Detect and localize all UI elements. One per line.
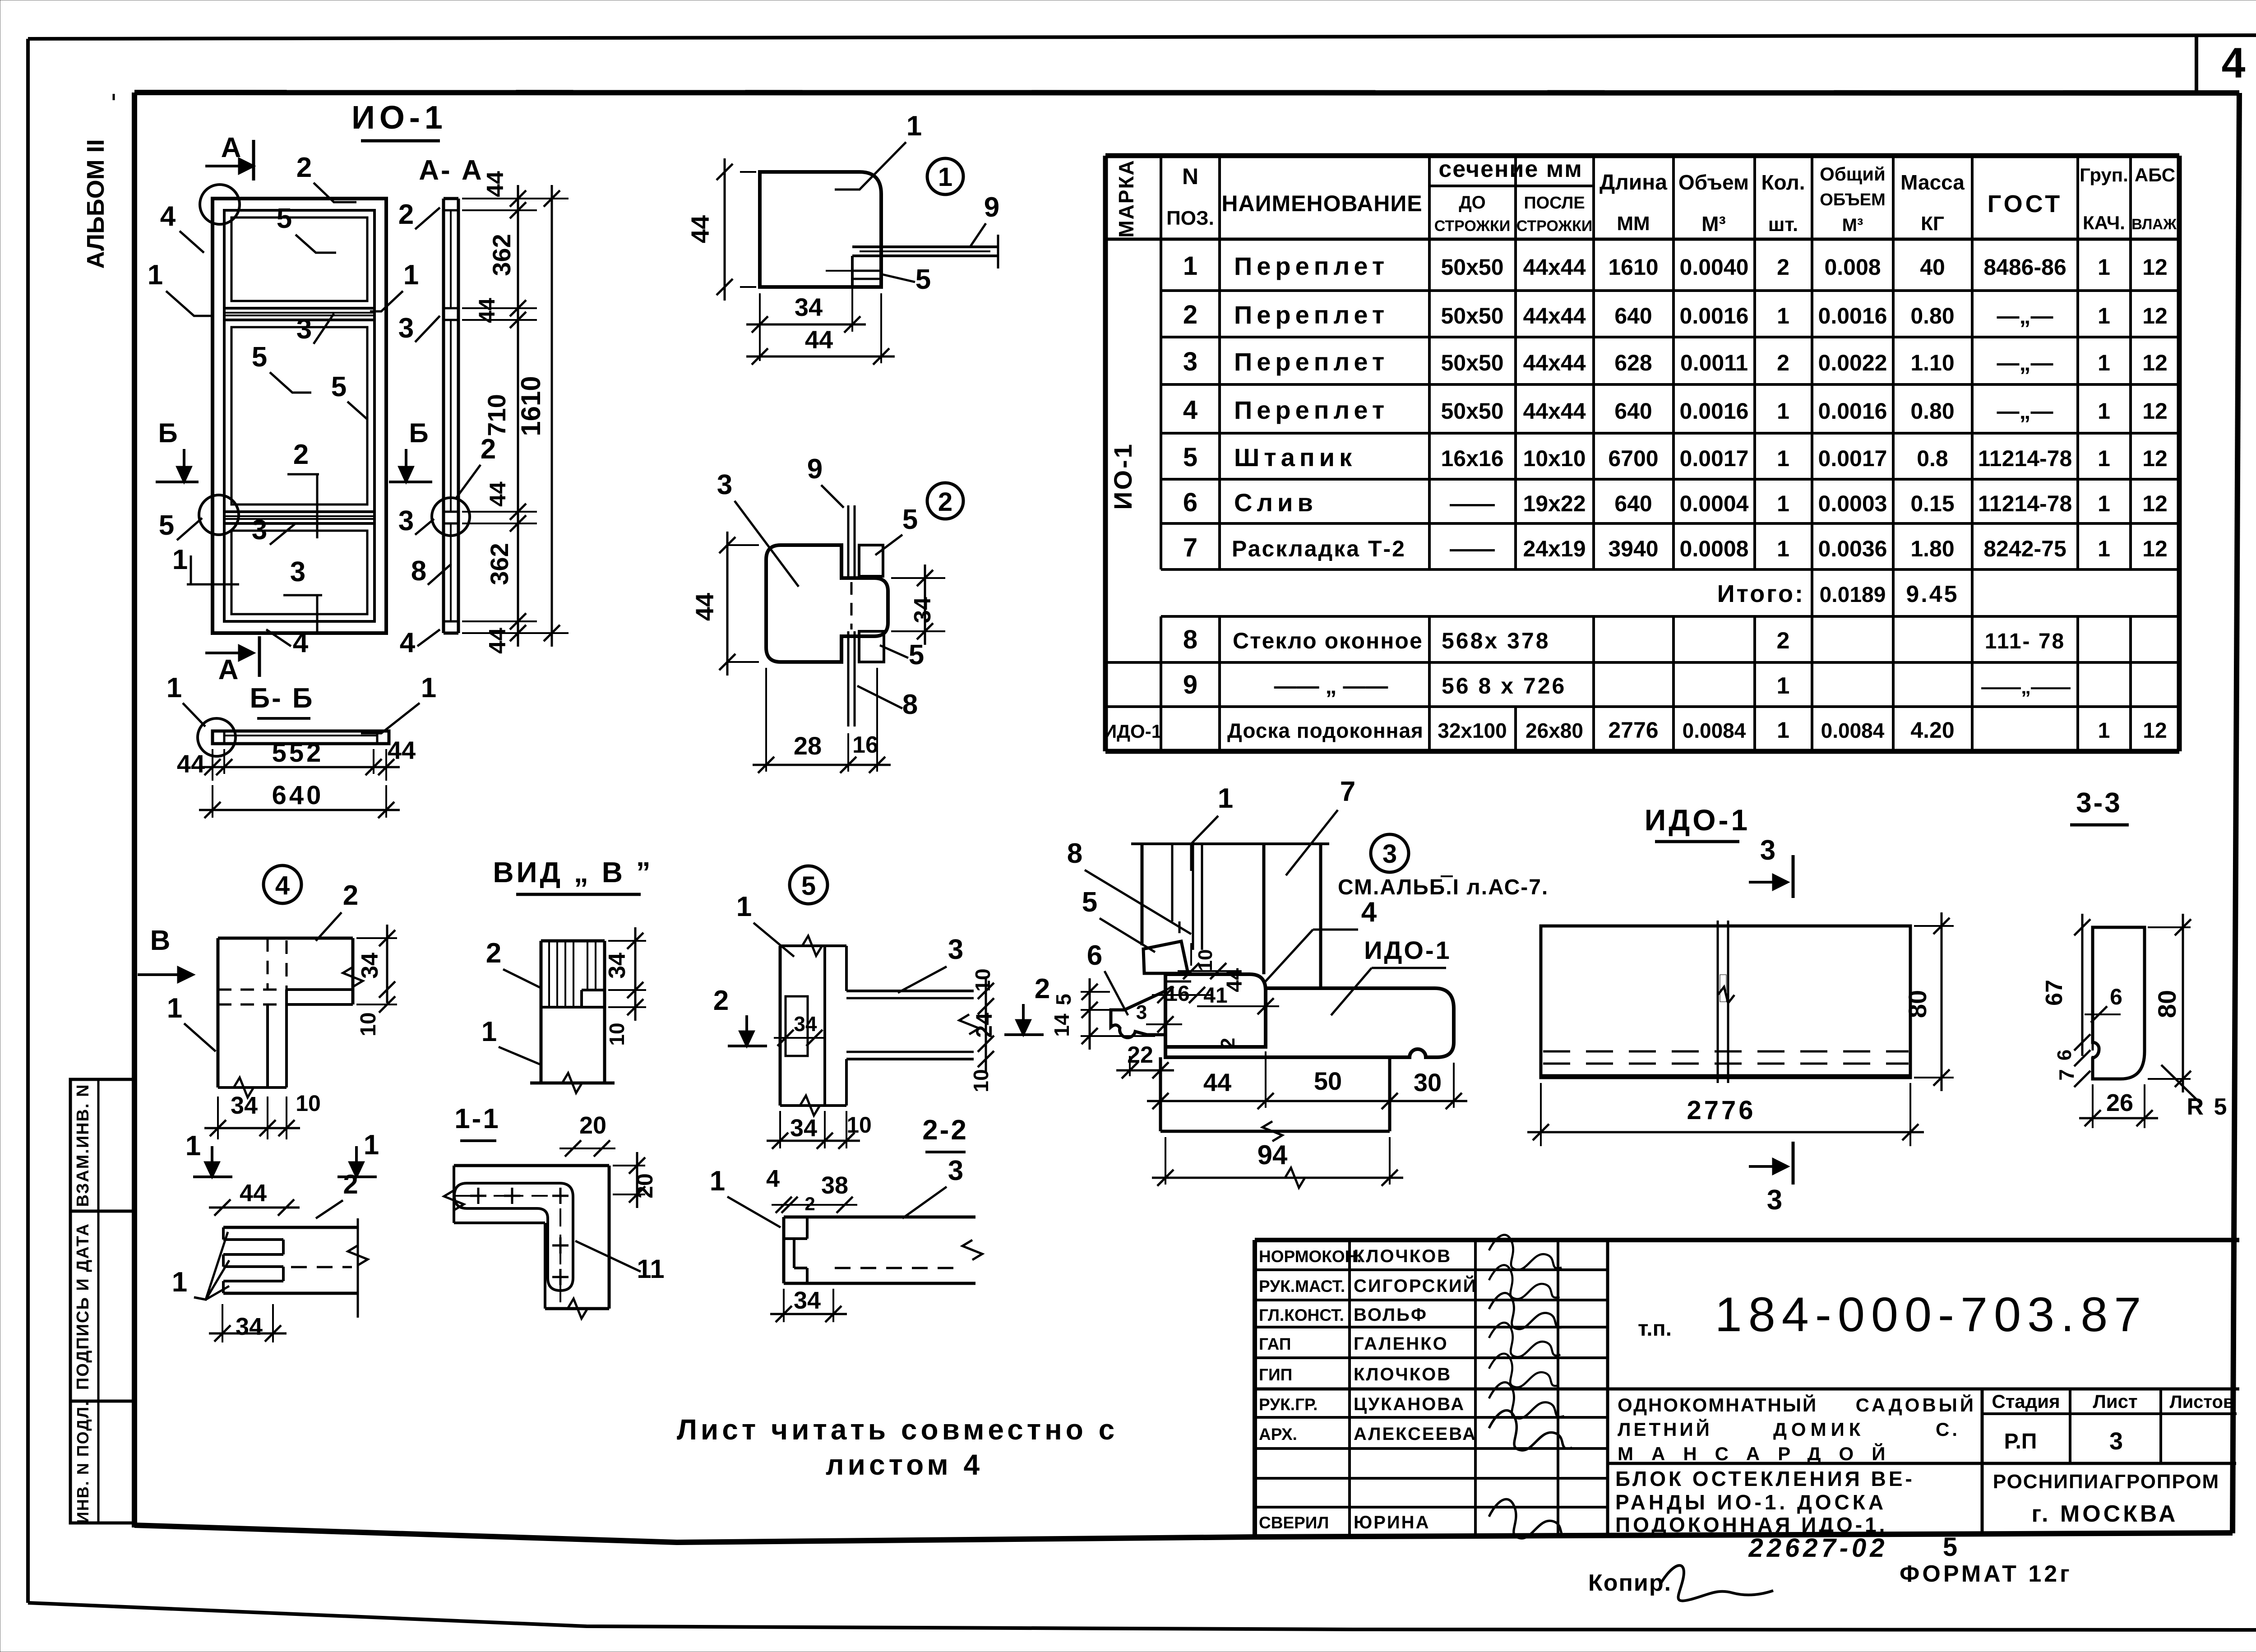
svg-text:6700: 6700 bbox=[1608, 446, 1658, 471]
svg-text:10: 10 bbox=[1194, 949, 1216, 972]
svg-text:КЛОЧКОВ: КЛОЧКОВ bbox=[1354, 1365, 1452, 1384]
svg-text:3: 3 bbox=[252, 514, 267, 546]
svg-text:0.0036: 0.0036 bbox=[1818, 536, 1887, 561]
svg-text:44: 44 bbox=[482, 171, 509, 197]
svg-text:КЛОЧКОВ: КЛОЧКОВ bbox=[1354, 1246, 1452, 1266]
svg-text:1: 1 bbox=[1218, 783, 1233, 814]
svg-text:80: 80 bbox=[1903, 990, 1932, 1018]
svg-text:6: 6 bbox=[2110, 984, 2122, 1009]
svg-text:Штапик: Штапик bbox=[1234, 443, 1356, 472]
svg-text:1: 1 bbox=[2098, 446, 2110, 471]
svg-text:50х50: 50х50 bbox=[1441, 350, 1503, 375]
svg-text:5: 5 bbox=[915, 264, 931, 295]
svg-text:АЛЬБОМ II: АЛЬБОМ II bbox=[82, 139, 109, 268]
svg-text:10: 10 bbox=[356, 1012, 380, 1036]
svg-text:2-2: 2-2 bbox=[922, 1115, 968, 1146]
svg-text:1: 1 bbox=[710, 1166, 725, 1197]
svg-text:44: 44 bbox=[1203, 1068, 1231, 1097]
svg-text:1: 1 bbox=[1777, 536, 1789, 561]
svg-text:24х19: 24х19 bbox=[1523, 536, 1586, 561]
svg-text:4: 4 bbox=[2222, 39, 2246, 87]
svg-text:16: 16 bbox=[852, 732, 878, 758]
svg-text:СИГОРСКИЙ: СИГОРСКИЙ bbox=[1354, 1275, 1477, 1296]
svg-text:0.0084: 0.0084 bbox=[1821, 719, 1885, 742]
svg-text:568х 378: 568х 378 bbox=[1442, 628, 1550, 653]
svg-text:1: 1 bbox=[2098, 719, 2110, 743]
svg-text:22627-02: 22627-02 bbox=[1748, 1533, 1888, 1563]
svg-text:1.10: 1.10 bbox=[1910, 350, 1954, 375]
svg-text:5: 5 bbox=[252, 342, 267, 373]
svg-text:5: 5 bbox=[801, 871, 816, 901]
svg-text:12: 12 bbox=[2142, 536, 2168, 561]
svg-text:ЦУКАНОВА: ЦУКАНОВА bbox=[1354, 1394, 1465, 1414]
svg-text:АРХ.: АРХ. bbox=[1259, 1425, 1297, 1444]
svg-text:ГОСТ: ГОСТ bbox=[1988, 190, 2063, 217]
svg-text:2: 2 bbox=[486, 938, 501, 969]
svg-text:12: 12 bbox=[2142, 398, 2168, 424]
svg-text:Переплет: Переплет bbox=[1234, 396, 1389, 424]
svg-text:34: 34 bbox=[236, 1313, 263, 1340]
svg-text:1: 1 bbox=[2098, 350, 2110, 375]
svg-text:ВОЛЬФ: ВОЛЬФ bbox=[1354, 1305, 1428, 1325]
svg-text:R 5: R 5 bbox=[2187, 1094, 2229, 1120]
svg-text:34: 34 bbox=[231, 1092, 258, 1119]
svg-text:111- 78: 111- 78 bbox=[1985, 629, 2066, 653]
svg-text:3-3: 3-3 bbox=[2076, 787, 2122, 819]
svg-text:0.80: 0.80 bbox=[1910, 303, 1954, 329]
svg-text:9.45: 9.45 bbox=[1906, 581, 1959, 607]
svg-text:44: 44 bbox=[388, 736, 416, 764]
svg-text:0.0022: 0.0022 bbox=[1818, 350, 1887, 375]
svg-text:362: 362 bbox=[487, 234, 516, 276]
svg-text:16: 16 bbox=[1165, 982, 1189, 1006]
svg-text:2: 2 bbox=[293, 439, 309, 470]
svg-text:ИНВ. N ПОДЛ.: ИНВ. N ПОДЛ. bbox=[74, 1401, 92, 1523]
svg-text:12: 12 bbox=[2142, 255, 2168, 280]
svg-text:Б: Б bbox=[158, 418, 177, 448]
svg-text:1: 1 bbox=[2098, 303, 2110, 329]
svg-text:3: 3 bbox=[398, 505, 414, 537]
svg-text:640: 640 bbox=[1614, 303, 1652, 329]
svg-text:9: 9 bbox=[1183, 670, 1197, 699]
svg-text:12: 12 bbox=[2142, 491, 2168, 516]
svg-text:ГЛ.КОНСТ.: ГЛ.КОНСТ. bbox=[1259, 1306, 1344, 1324]
svg-text:0.0016: 0.0016 bbox=[1818, 303, 1887, 329]
svg-text:шт.: шт. bbox=[1768, 213, 1798, 236]
svg-text:—„—: —„— bbox=[1997, 398, 2053, 424]
svg-text:Объем: Объем bbox=[1678, 171, 1749, 194]
svg-text:0.0004: 0.0004 bbox=[1680, 491, 1749, 516]
svg-text:Б: Б bbox=[409, 418, 428, 448]
svg-text:Длина: Длина bbox=[1600, 171, 1667, 194]
svg-text:2: 2 bbox=[343, 880, 358, 911]
svg-text:38: 38 bbox=[821, 1172, 848, 1199]
svg-text:2: 2 bbox=[1777, 350, 1789, 375]
svg-text:11214-78: 11214-78 bbox=[1978, 446, 2072, 471]
svg-text:2: 2 bbox=[713, 985, 729, 1016]
svg-text:1: 1 bbox=[166, 672, 182, 703]
svg-text:ГИП: ГИП bbox=[1259, 1365, 1292, 1384]
svg-text:Р.П: Р.П bbox=[2004, 1430, 2037, 1453]
svg-text:2: 2 bbox=[1777, 255, 1789, 280]
svg-text:10: 10 bbox=[296, 1091, 321, 1116]
svg-text:14: 14 bbox=[1050, 1013, 1073, 1037]
svg-text:1: 1 bbox=[1777, 303, 1789, 329]
svg-text:1: 1 bbox=[1777, 446, 1789, 471]
svg-text:Масса: Масса bbox=[1900, 171, 1965, 194]
svg-text:АБС: АБС bbox=[2135, 164, 2175, 185]
svg-text:ДОМИК: ДОМИК bbox=[1773, 1419, 1865, 1440]
svg-text:0.0084: 0.0084 bbox=[1683, 719, 1746, 742]
svg-text:44х44: 44х44 bbox=[1523, 255, 1586, 280]
svg-text:5: 5 bbox=[159, 510, 174, 541]
svg-text:3: 3 bbox=[1760, 835, 1775, 866]
svg-text:1: 1 bbox=[1183, 251, 1197, 281]
svg-text:ГАП: ГАП bbox=[1259, 1335, 1291, 1353]
svg-text:0.0040: 0.0040 bbox=[1680, 255, 1749, 280]
svg-text:Лист: Лист bbox=[2093, 1391, 2137, 1412]
svg-text:Общий: Общий bbox=[1820, 163, 1886, 185]
svg-text:9: 9 bbox=[807, 453, 823, 485]
svg-text:1: 1 bbox=[2098, 491, 2110, 516]
svg-text:11: 11 bbox=[637, 1254, 664, 1284]
svg-text:4: 4 bbox=[400, 627, 416, 658]
svg-text:94: 94 bbox=[1257, 1140, 1288, 1170]
svg-text:9: 9 bbox=[984, 192, 999, 223]
svg-text:1: 1 bbox=[1777, 398, 1789, 424]
svg-text:РАНДЫ ИО-1. ДОСКА: РАНДЫ ИО-1. ДОСКА bbox=[1615, 1490, 1886, 1514]
svg-text:12: 12 bbox=[2143, 719, 2167, 743]
svg-text:3: 3 bbox=[1382, 839, 1397, 869]
svg-text:44х44: 44х44 bbox=[1523, 303, 1586, 329]
svg-text:5: 5 bbox=[902, 504, 918, 535]
svg-text:2776: 2776 bbox=[1608, 717, 1658, 743]
svg-text:Листов: Листов bbox=[2170, 1392, 2234, 1412]
svg-text:4: 4 bbox=[275, 871, 290, 900]
svg-text:1: 1 bbox=[938, 162, 952, 192]
svg-text:3: 3 bbox=[1767, 1185, 1782, 1216]
svg-text:22: 22 bbox=[1127, 1042, 1153, 1068]
svg-text:10: 10 bbox=[605, 1023, 629, 1046]
svg-text:НОРМОКОН.: НОРМОКОН. bbox=[1259, 1247, 1362, 1266]
svg-text:5: 5 bbox=[1082, 887, 1097, 918]
svg-text:Б- Б: Б- Б bbox=[250, 683, 314, 714]
svg-text:МАНСАРДОЙ: МАНСАРДОЙ bbox=[1618, 1443, 1903, 1464]
svg-text:44: 44 bbox=[686, 215, 714, 243]
svg-text:3: 3 bbox=[2109, 1428, 2123, 1455]
svg-text:М³: М³ bbox=[1701, 212, 1726, 236]
svg-text:8: 8 bbox=[902, 689, 918, 720]
svg-text:ВИД „ В ”: ВИД „ В ” bbox=[493, 856, 653, 888]
svg-text:Доска подоконная: Доска подоконная bbox=[1227, 719, 1424, 742]
svg-text:3: 3 bbox=[948, 934, 963, 965]
svg-text:1: 1 bbox=[2098, 536, 2110, 561]
svg-text:М³: М³ bbox=[1842, 215, 1863, 235]
svg-text:20: 20 bbox=[579, 1112, 606, 1139]
svg-text:32х100: 32х100 bbox=[1438, 719, 1507, 742]
svg-text:1: 1 bbox=[172, 1267, 187, 1298]
svg-text:ЛЕТНИЙ: ЛЕТНИЙ bbox=[1618, 1418, 1712, 1440]
svg-text:19х22: 19х22 bbox=[1523, 491, 1586, 516]
svg-text:34: 34 bbox=[910, 597, 936, 623]
svg-text:34: 34 bbox=[790, 1115, 817, 1142]
svg-text:5: 5 bbox=[1943, 1532, 1957, 1562]
svg-text:56 8 х 726: 56 8 х 726 bbox=[1442, 673, 1566, 699]
svg-text:8: 8 bbox=[411, 555, 426, 587]
svg-text:1: 1 bbox=[2098, 398, 2110, 424]
svg-text:80: 80 bbox=[2153, 990, 2181, 1018]
svg-text:—„—: —„— bbox=[1997, 303, 2053, 329]
svg-text:Кол.: Кол. bbox=[1761, 171, 1805, 194]
svg-text:0.0017: 0.0017 bbox=[1680, 446, 1749, 471]
svg-text:8242-75: 8242-75 bbox=[1983, 536, 2066, 561]
svg-text:4: 4 bbox=[1183, 395, 1197, 425]
svg-text:8: 8 bbox=[1067, 838, 1082, 869]
svg-text:2: 2 bbox=[804, 1193, 815, 1214]
svg-text:2: 2 bbox=[296, 152, 312, 183]
svg-text:552: 552 bbox=[272, 738, 324, 768]
svg-text:РОСНИПИАГРОПРОМ: РОСНИПИАГРОПРОМ bbox=[1993, 1471, 2219, 1493]
svg-text:3: 3 bbox=[717, 469, 732, 500]
svg-text:0.0017: 0.0017 bbox=[1818, 446, 1887, 471]
svg-text:628: 628 bbox=[1614, 350, 1652, 375]
svg-text:44: 44 bbox=[485, 628, 511, 654]
svg-text:0.80: 0.80 bbox=[1910, 398, 1954, 424]
svg-text:50х50: 50х50 bbox=[1441, 398, 1503, 424]
svg-text:1-1: 1-1 bbox=[454, 1103, 500, 1134]
svg-text:Стекло оконное: Стекло оконное bbox=[1233, 628, 1423, 653]
svg-text:1: 1 bbox=[172, 544, 188, 575]
svg-text:—„—: —„— bbox=[1997, 350, 2053, 375]
svg-text:1: 1 bbox=[185, 1130, 201, 1161]
svg-text:44х44: 44х44 bbox=[1523, 350, 1586, 375]
svg-text:10х10: 10х10 bbox=[1523, 446, 1586, 471]
svg-text:2: 2 bbox=[398, 199, 414, 230]
svg-text:РУК.ГР.: РУК.ГР. bbox=[1259, 1395, 1318, 1414]
svg-text:0.0003: 0.0003 bbox=[1818, 491, 1887, 516]
svg-text:50х50: 50х50 bbox=[1441, 303, 1503, 329]
svg-text:МАРКА: МАРКА bbox=[1114, 159, 1138, 238]
svg-text:3940: 3940 bbox=[1608, 536, 1658, 561]
svg-text:С.: С. bbox=[1936, 1419, 1960, 1440]
svg-text:Раскладка Т-2: Раскладка Т-2 bbox=[1232, 536, 1406, 561]
svg-text:2: 2 bbox=[1183, 300, 1197, 329]
svg-text:N: N bbox=[1182, 164, 1198, 189]
svg-text:7: 7 bbox=[1340, 776, 1355, 807]
svg-text:СВЕРИЛ: СВЕРИЛ bbox=[1259, 1513, 1329, 1532]
svg-text:44: 44 bbox=[474, 298, 499, 323]
svg-text:67: 67 bbox=[2041, 980, 2067, 1006]
svg-text:Копир.: Копир. bbox=[1588, 1570, 1672, 1596]
svg-text:12: 12 bbox=[2142, 350, 2168, 375]
svg-text:ПОСЛЕ: ПОСЛЕ bbox=[1524, 194, 1585, 213]
svg-text:КГ: КГ bbox=[1921, 213, 1944, 235]
svg-text:30: 30 bbox=[1414, 1068, 1442, 1097]
svg-text:1: 1 bbox=[1777, 491, 1789, 516]
svg-text:44: 44 bbox=[485, 481, 510, 507]
svg-text:50: 50 bbox=[1314, 1067, 1342, 1095]
svg-text:СТРОЖКИ: СТРОЖКИ bbox=[1434, 217, 1511, 235]
svg-text:ПОЗ.: ПОЗ. bbox=[1166, 207, 1214, 229]
svg-text:5: 5 bbox=[331, 371, 347, 403]
svg-text:2: 2 bbox=[1217, 1038, 1239, 1049]
svg-text:184-000-703.87: 184-000-703.87 bbox=[1715, 1287, 2148, 1342]
svg-text:3: 3 bbox=[1183, 347, 1197, 376]
svg-text:26х80: 26х80 bbox=[1526, 719, 1583, 742]
svg-text:Стадия: Стадия bbox=[1992, 1391, 2060, 1412]
svg-text:ИО-1: ИО-1 bbox=[351, 100, 447, 136]
svg-text:А: А bbox=[218, 654, 239, 685]
svg-text:50х50: 50х50 bbox=[1441, 255, 1503, 280]
svg-text:640: 640 bbox=[272, 781, 324, 810]
svg-text:0.0016: 0.0016 bbox=[1818, 398, 1887, 424]
svg-text:——„——: ——„—— bbox=[1981, 676, 2071, 698]
svg-text:1: 1 bbox=[1777, 673, 1790, 699]
svg-text:12: 12 bbox=[2142, 303, 2168, 329]
svg-text:БЛОК ОСТЕКЛЕНИЯ ВЕ-: БЛОК ОСТЕКЛЕНИЯ ВЕ- bbox=[1615, 1467, 1915, 1490]
svg-text:34: 34 bbox=[794, 1012, 817, 1036]
svg-text:6: 6 bbox=[1087, 940, 1102, 971]
svg-text:1: 1 bbox=[421, 672, 436, 703]
svg-text:ВЛАЖ: ВЛАЖ bbox=[2131, 216, 2177, 232]
svg-text:ПОДПИСЬ И ДАТА: ПОДПИСЬ И ДАТА bbox=[74, 1223, 92, 1390]
svg-text:ИДО-1: ИДО-1 bbox=[1645, 803, 1750, 837]
svg-text:2: 2 bbox=[343, 1169, 358, 1199]
svg-text:Лист читать совместно с: Лист читать совместно с bbox=[677, 1413, 1118, 1446]
svg-text:4: 4 bbox=[160, 201, 176, 232]
svg-text:0.008: 0.008 bbox=[1824, 255, 1881, 280]
svg-text:1: 1 bbox=[403, 259, 419, 291]
svg-text:5: 5 bbox=[277, 203, 292, 234]
svg-text:1610: 1610 bbox=[1608, 255, 1658, 280]
svg-text:44х44: 44х44 bbox=[1523, 398, 1586, 424]
svg-text:т.п.: т.п. bbox=[1638, 1317, 1672, 1341]
svg-text:РУК.МАСТ.: РУК.МАСТ. bbox=[1259, 1277, 1345, 1296]
svg-text:B: B bbox=[150, 925, 171, 956]
svg-text:8: 8 bbox=[1183, 625, 1197, 654]
svg-text:листом 4: листом 4 bbox=[826, 1448, 983, 1481]
svg-text:10: 10 bbox=[969, 1069, 993, 1092]
svg-text:4: 4 bbox=[293, 627, 309, 658]
svg-text:КАЧ.: КАЧ. bbox=[2083, 212, 2125, 233]
svg-text:ФОРМАТ 12г: ФОРМАТ 12г bbox=[1900, 1561, 2072, 1587]
svg-text:ИДО-1: ИДО-1 bbox=[1364, 936, 1452, 964]
svg-text:1: 1 bbox=[2098, 255, 2110, 280]
svg-text:1610: 1610 bbox=[516, 376, 546, 436]
svg-text:САДОВЫЙ: САДОВЫЙ bbox=[1856, 1394, 1976, 1416]
svg-text:0.0189: 0.0189 bbox=[1820, 583, 1886, 607]
svg-text:4: 4 bbox=[766, 1165, 780, 1192]
svg-text:8486-86: 8486-86 bbox=[1983, 255, 2066, 280]
svg-text:ВЗАМ.ИНВ. N: ВЗАМ.ИНВ. N bbox=[74, 1083, 92, 1207]
svg-text:Переплет: Переплет bbox=[1234, 252, 1389, 280]
svg-text:11214-78: 11214-78 bbox=[1978, 491, 2072, 516]
svg-text:640: 640 bbox=[1614, 491, 1652, 516]
svg-text:10: 10 bbox=[971, 968, 994, 991]
svg-text:——: —— bbox=[1450, 491, 1495, 516]
svg-text:А- А: А- А bbox=[419, 155, 483, 186]
svg-text:ОДНОКОМНАТНЫЙ: ОДНОКОМНАТНЫЙ bbox=[1618, 1394, 1817, 1416]
svg-text:5: 5 bbox=[1052, 994, 1075, 1005]
svg-text:ЮРИНА: ЮРИНА bbox=[1354, 1513, 1430, 1532]
svg-text:—— „ ——: —— „ —— bbox=[1274, 673, 1388, 699]
svg-text:НАИМЕНОВАНИЕ: НАИМЕНОВАНИЕ bbox=[1221, 191, 1422, 216]
svg-text:2776: 2776 bbox=[1687, 1096, 1756, 1125]
svg-text:1: 1 bbox=[481, 1016, 497, 1047]
svg-text:34: 34 bbox=[604, 953, 630, 979]
svg-text:34: 34 bbox=[795, 293, 823, 321]
svg-text:1: 1 bbox=[167, 993, 182, 1024]
svg-text:ИДО-1: ИДО-1 bbox=[1103, 721, 1162, 742]
svg-text:6: 6 bbox=[2053, 1050, 2076, 1060]
svg-text:0.0016: 0.0016 bbox=[1680, 303, 1749, 329]
svg-text:ГАЛЕНКО: ГАЛЕНКО bbox=[1354, 1334, 1448, 1354]
svg-text:1: 1 bbox=[1777, 717, 1789, 743]
svg-text:1: 1 bbox=[148, 259, 163, 291]
svg-text:1: 1 bbox=[906, 111, 922, 142]
svg-text:ИО-1: ИО-1 bbox=[1109, 442, 1137, 510]
svg-text:710: 710 bbox=[482, 394, 511, 436]
svg-text:2: 2 bbox=[1777, 628, 1790, 654]
svg-text:Итого:: Итого: bbox=[1717, 580, 1805, 607]
svg-text:6: 6 bbox=[1183, 488, 1197, 517]
svg-text:16х16: 16х16 bbox=[1441, 446, 1503, 471]
svg-text:7: 7 bbox=[2055, 1069, 2078, 1081]
svg-text:2: 2 bbox=[938, 487, 952, 517]
svg-text:1: 1 bbox=[736, 891, 752, 922]
svg-text:2: 2 bbox=[1035, 973, 1050, 1004]
svg-text:3: 3 bbox=[1136, 1001, 1147, 1023]
svg-text:24: 24 bbox=[971, 1013, 997, 1038]
svg-text:ДО: ДО bbox=[1459, 193, 1486, 213]
svg-text:28: 28 bbox=[794, 731, 822, 760]
svg-text:640: 640 bbox=[1614, 398, 1652, 424]
svg-text:44: 44 bbox=[177, 750, 205, 778]
svg-text:34: 34 bbox=[794, 1287, 821, 1314]
svg-text:СМ.АЛЬБ.I л.АС-7.: СМ.АЛЬБ.I л.АС-7. bbox=[1338, 875, 1549, 899]
svg-text:г. МОСКВА: г. МОСКВА bbox=[2032, 1501, 2178, 1527]
svg-text:0.15: 0.15 bbox=[1910, 491, 1954, 516]
svg-text:сечение мм: сечение мм bbox=[1438, 156, 1582, 182]
svg-text:362: 362 bbox=[485, 543, 513, 585]
svg-text:40: 40 bbox=[1920, 255, 1945, 280]
svg-text:Переплет: Переплет bbox=[1234, 347, 1389, 376]
svg-text:0.0016: 0.0016 bbox=[1680, 398, 1749, 424]
svg-text:ММ: ММ bbox=[1617, 213, 1650, 235]
svg-text:Слив: Слив bbox=[1234, 488, 1318, 517]
svg-text:——: —— bbox=[1450, 536, 1495, 561]
svg-text:4.20: 4.20 bbox=[1910, 717, 1954, 743]
svg-text:7: 7 bbox=[1183, 533, 1197, 562]
svg-text:1.80: 1.80 bbox=[1910, 536, 1954, 561]
svg-text:Переплет: Переплет bbox=[1234, 301, 1389, 329]
svg-text:44: 44 bbox=[240, 1180, 267, 1207]
svg-text:4: 4 bbox=[1361, 897, 1377, 928]
svg-text:0.0011: 0.0011 bbox=[1680, 350, 1748, 375]
svg-text:3: 3 bbox=[948, 1155, 963, 1186]
svg-text:0.8: 0.8 bbox=[1917, 446, 1948, 471]
svg-text:0.0008: 0.0008 bbox=[1680, 536, 1749, 561]
svg-text:44: 44 bbox=[690, 593, 719, 621]
svg-text:5: 5 bbox=[1183, 443, 1197, 472]
svg-text:3: 3 bbox=[398, 313, 414, 344]
svg-text:12: 12 bbox=[2142, 446, 2168, 471]
svg-text:ОБЪЕМ: ОБЪЕМ bbox=[1820, 190, 1885, 209]
svg-text:2: 2 bbox=[481, 434, 496, 465]
svg-text:Груп.: Груп. bbox=[2080, 164, 2128, 185]
svg-text:10: 10 bbox=[846, 1112, 872, 1138]
svg-text:3: 3 bbox=[296, 314, 312, 345]
